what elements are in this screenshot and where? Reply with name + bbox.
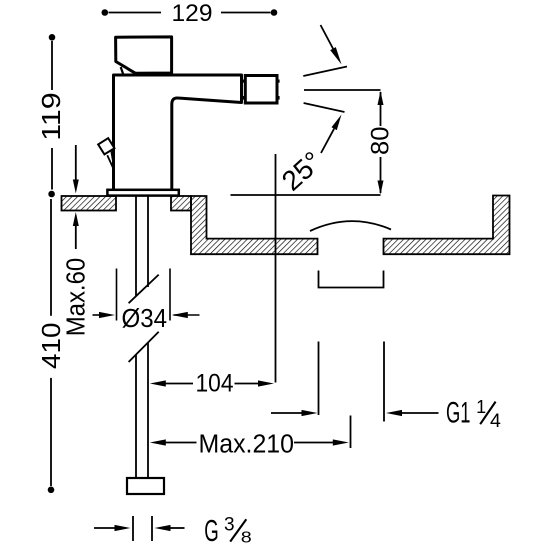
svg-text:Ø34: Ø34: [122, 305, 168, 333]
svg-text:104: 104: [196, 370, 234, 398]
svg-text:3: 3: [224, 515, 235, 536]
svg-text:129: 129: [172, 0, 213, 27]
svg-text:4: 4: [490, 410, 501, 432]
svg-text:Max.60: Max.60: [62, 258, 90, 337]
svg-text:8: 8: [241, 530, 252, 547]
svg-text:G: G: [204, 514, 219, 548]
svg-text:119: 119: [36, 92, 66, 141]
svg-text:Max.210: Max.210: [199, 430, 295, 458]
svg-text:80: 80: [367, 127, 395, 156]
svg-text:G1: G1: [446, 397, 471, 430]
svg-text:1: 1: [476, 397, 486, 417]
